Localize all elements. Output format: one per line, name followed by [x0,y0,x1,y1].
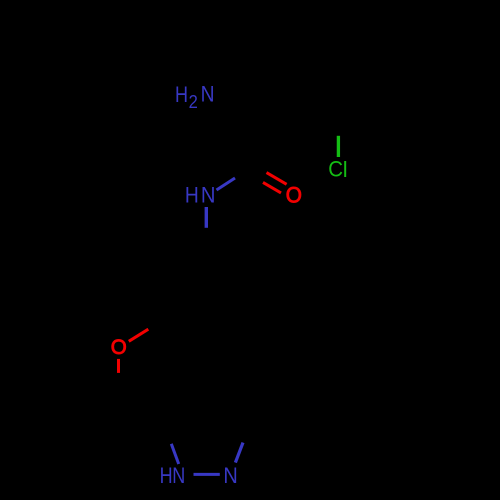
svg-text:l: l [343,157,348,182]
carbonyl double bond C=O lower line (O half) [263,182,281,193]
svg-text:2: 2 [189,92,198,112]
bond amide N to carbonyl C (N half) [217,178,236,190]
svg-text:N: N [223,463,237,488]
svg-text:H: H [175,82,188,107]
bond amide N to aryl C (N half) [205,207,208,228]
amine group H2N [175,82,215,112]
svg-text:C: C [328,157,343,182]
chlorine Cl label [328,157,347,183]
bond N2 to C3 (N half) [235,443,243,463]
svg-text:H: H [160,463,173,488]
bond N1 to C5 (N half) [171,444,178,464]
bond methoxy O to ring C (O half) [117,359,120,373]
pyrazole N1-H label [160,463,186,488]
amide N-H label [185,182,216,207]
bond N1-N2 (full, both N) [194,473,220,476]
bond aryl C to Cl (Cl half) [337,136,340,157]
svg-text:N: N [201,182,216,207]
svg-text:O: O [286,182,302,207]
svg-text:N: N [201,82,215,107]
svg-text:N: N [172,463,185,488]
svg-text:O: O [111,336,127,359]
bond methoxy O to methyl C (O half) [129,329,149,341]
svg-text:H: H [185,182,199,207]
carbonyl double bond C=O upper line (O half) [267,173,287,185]
